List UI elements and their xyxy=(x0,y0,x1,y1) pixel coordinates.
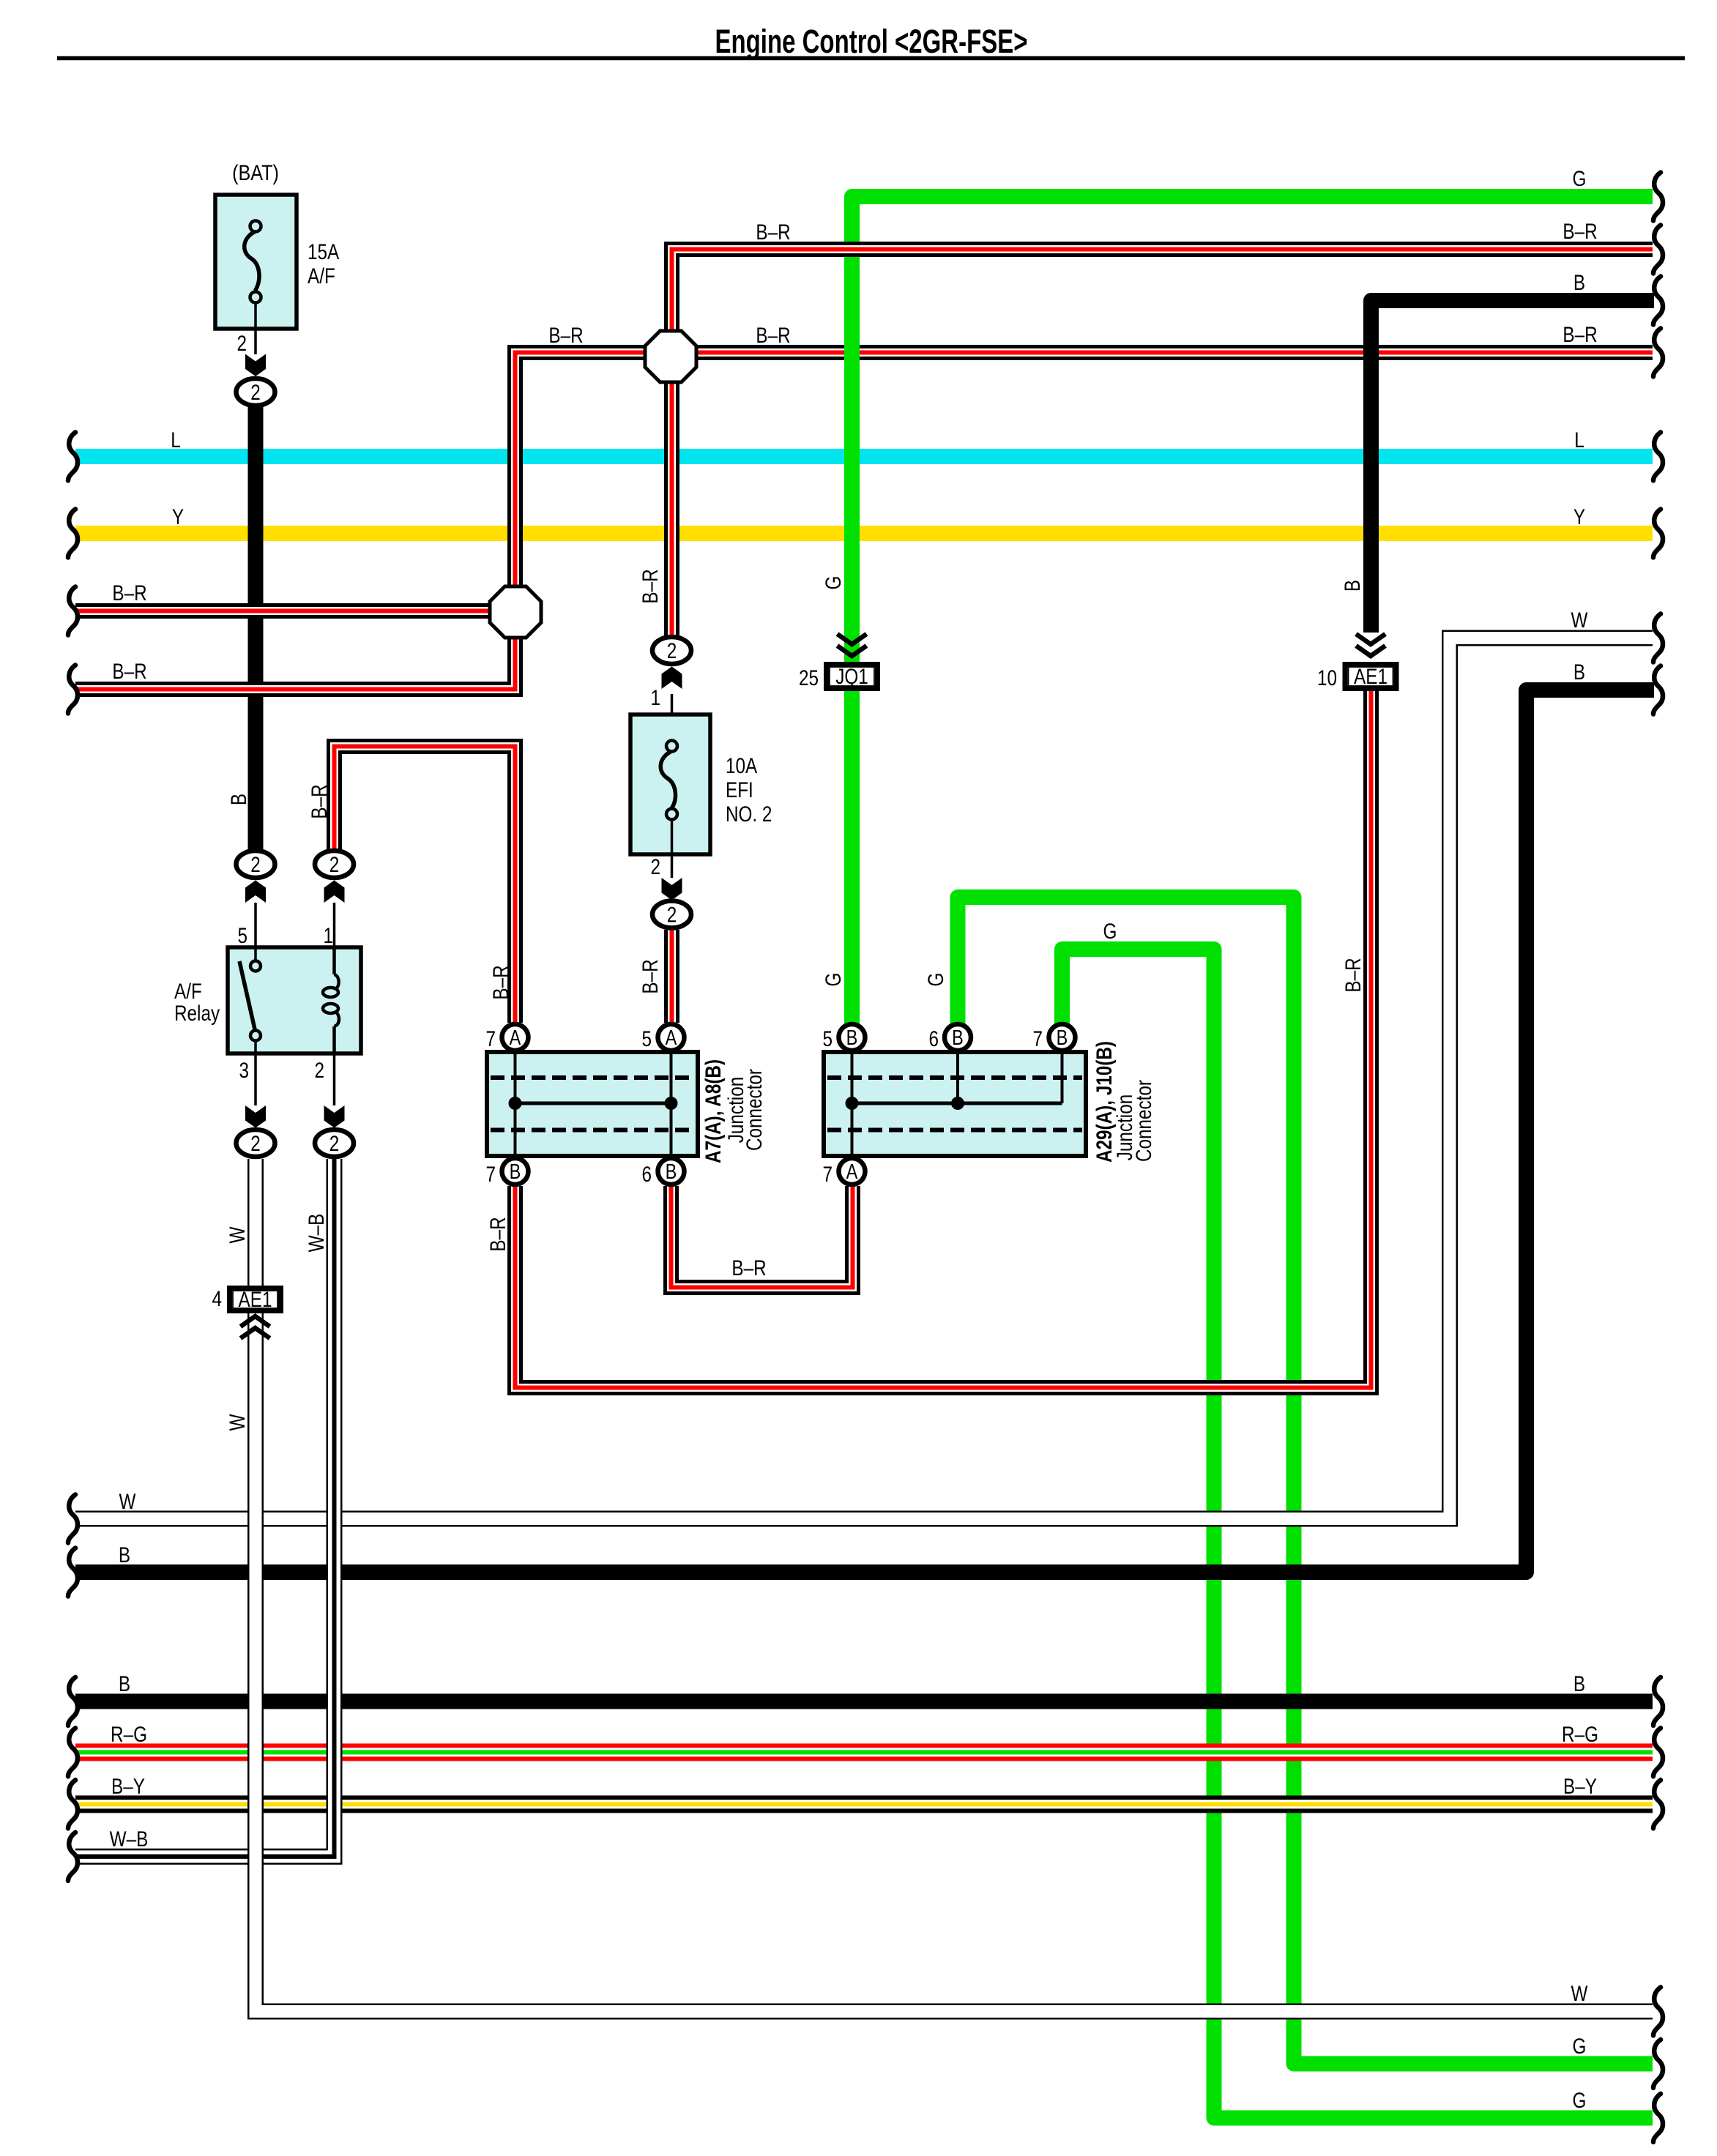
svg-text:1: 1 xyxy=(323,923,333,948)
relay switch contact top xyxy=(254,948,257,961)
break symbols left xyxy=(68,433,78,481)
svg-text:2: 2 xyxy=(650,854,660,879)
svg-text:W: W xyxy=(119,1489,136,1514)
svg-text:B–R: B–R xyxy=(1563,322,1597,347)
svg-text:B–R: B–R xyxy=(731,1256,766,1280)
relay pin 2 lead xyxy=(333,1053,336,1105)
pin 7A junction connector 1 xyxy=(502,1024,529,1051)
svg-text:G: G xyxy=(1573,166,1587,191)
AE1 10 arrow xyxy=(1356,634,1385,644)
svg-text:1: 1 xyxy=(650,685,660,710)
svg-text:B: B xyxy=(1573,1671,1585,1696)
wire B-R octagon A to left corner down to octagon B xyxy=(515,353,647,589)
svg-text:B–R: B–R xyxy=(1341,958,1366,992)
pin 7B junction connector 1 xyxy=(502,1158,529,1185)
svg-text:B–R: B–R xyxy=(485,1217,510,1251)
wire B-R top horizontal into junction octagon A xyxy=(672,250,1653,333)
junction connector A29(A) J10(B) xyxy=(824,1052,1086,1156)
svg-text:Connector: Connector xyxy=(742,1069,767,1151)
pin 5B junction connector 2 xyxy=(839,1024,865,1051)
wire W right: left break to top right break xyxy=(75,638,1653,1519)
pin 7A junction connector 2 xyxy=(839,1158,865,1185)
relay coil xyxy=(332,948,336,974)
JQ1 arrow xyxy=(838,634,867,644)
svg-text:7: 7 xyxy=(485,1026,496,1051)
wire W-B from relay pin 2 down to left break xyxy=(75,1159,335,1857)
fuse 15A A/F xyxy=(215,195,297,329)
svg-text:B–R: B–R xyxy=(1563,219,1597,244)
wire B-R right of junction octagon (under green) xyxy=(696,345,1653,360)
svg-text:B–R: B–R xyxy=(756,220,790,245)
wire G from pin 6B up right and down to bottom G xyxy=(958,898,1653,2064)
svg-text:W: W xyxy=(225,1226,250,1243)
connector oval 2 below 15A fuse xyxy=(236,378,275,406)
svg-text:2: 2 xyxy=(329,852,340,877)
connector oval 2 below EFI fuse xyxy=(652,901,691,928)
svg-text:B: B xyxy=(1340,580,1365,592)
svg-text:B: B xyxy=(510,1160,521,1184)
wire L (cyan) xyxy=(75,449,1653,464)
wire W from relay pin 3 down right to right break xyxy=(256,1159,1653,2012)
svg-text:B: B xyxy=(226,794,251,805)
AE1 4 box xyxy=(230,1288,281,1311)
svg-text:(BAT): (BAT) xyxy=(232,160,279,185)
connector oval 2 below relay pin 3 xyxy=(236,1130,275,1157)
svg-text:G: G xyxy=(1103,919,1117,944)
svg-text:AE1: AE1 xyxy=(239,1287,272,1312)
wire B-Y bottom xyxy=(75,1796,1653,1813)
svg-text:B: B xyxy=(119,1543,130,1567)
svg-text:15A: 15A xyxy=(308,239,340,264)
svg-text:2: 2 xyxy=(329,1131,340,1156)
wire B thick top right to AE1 10 xyxy=(1371,301,1655,633)
svg-text:B–Y: B–Y xyxy=(111,1774,145,1799)
fuse 10A EFI NO.2 xyxy=(630,715,710,854)
wire B bottom full width xyxy=(75,1694,1653,1709)
svg-text:G: G xyxy=(1573,2088,1587,2113)
svg-text:2: 2 xyxy=(314,1058,324,1083)
svg-text:7: 7 xyxy=(1032,1026,1043,1051)
wire B-R left 2 up into octagon B bottom xyxy=(75,636,515,690)
svg-text:B: B xyxy=(1573,270,1585,295)
svg-text:Y: Y xyxy=(1573,504,1585,529)
svg-text:L: L xyxy=(1574,428,1584,452)
relay switch blade xyxy=(239,961,255,1029)
svg-text:R–G: R–G xyxy=(111,1722,147,1747)
svg-text:Y: Y xyxy=(172,504,184,529)
relay A/F box xyxy=(228,947,361,1053)
svg-text:R–G: R–G xyxy=(1562,1722,1598,1747)
svg-text:A7(A), A8(B): A7(A), A8(B) xyxy=(701,1059,726,1163)
svg-text:W–B: W–B xyxy=(110,1827,149,1851)
connector arrow above relay pin 1 xyxy=(324,881,345,903)
svg-text:B–R: B–R xyxy=(548,323,583,348)
connector arrow above EFI fuse xyxy=(662,667,682,690)
svg-text:G: G xyxy=(821,973,846,987)
svg-text:B–R: B–R xyxy=(756,323,790,348)
svg-text:JQ1: JQ1 xyxy=(835,664,868,689)
wire B-R EFI fuse to junction connector pin 5A xyxy=(664,930,679,1023)
wire B-R relay pin1 up over to junction connector pin 7A xyxy=(335,747,515,1023)
svg-text:EFI: EFI xyxy=(726,777,753,802)
svg-text:W–B: W–B xyxy=(304,1214,329,1253)
svg-text:7: 7 xyxy=(485,1162,496,1187)
svg-text:B–R: B–R xyxy=(488,965,513,999)
junction octagon B xyxy=(490,586,541,638)
pin 6B junction connector 1 xyxy=(658,1158,685,1185)
svg-text:Connector: Connector xyxy=(1131,1080,1156,1162)
connector arrow below EFI fuse xyxy=(662,878,682,900)
svg-text:B–R: B–R xyxy=(307,784,332,818)
AE1 4 arrow xyxy=(241,1316,270,1327)
connector oval 2 below relay pin 2 xyxy=(315,1130,354,1157)
AE1 10 box xyxy=(1345,665,1396,689)
wire B thick from 15A fuse down to relay xyxy=(248,407,264,851)
svg-text:4: 4 xyxy=(212,1286,222,1311)
svg-text:B: B xyxy=(1573,660,1585,685)
svg-text:2: 2 xyxy=(236,331,247,356)
svg-text:5: 5 xyxy=(237,923,247,948)
svg-text:2: 2 xyxy=(667,638,677,663)
svg-text:A: A xyxy=(510,1026,521,1050)
svg-text:AE1: AE1 xyxy=(1354,664,1388,689)
svg-text:B–Y: B–Y xyxy=(1563,1774,1597,1799)
wire B-R left 1 into octagon B xyxy=(75,603,491,619)
svg-text:G: G xyxy=(1573,2034,1587,2059)
wire G from pin 7B up right and down to bottom G xyxy=(1062,950,1653,2119)
svg-text:G: G xyxy=(821,576,846,590)
connector arrow below 15A fuse xyxy=(245,354,266,377)
connector oval 2 above relay pin 1 xyxy=(315,851,354,878)
svg-text:B–R: B–R xyxy=(112,581,146,605)
svg-text:L: L xyxy=(171,428,181,452)
svg-text:B–R: B–R xyxy=(638,959,663,993)
svg-text:3: 3 xyxy=(239,1058,249,1083)
svg-text:B–R: B–R xyxy=(112,659,146,684)
wire R-G bottom xyxy=(75,1744,1653,1761)
JQ1 box with label 25 xyxy=(827,665,878,689)
wire Y (yellow) xyxy=(75,526,1653,541)
svg-text:W: W xyxy=(1571,608,1588,633)
pin 5A junction connector 1 xyxy=(658,1024,685,1051)
svg-text:A/F: A/F xyxy=(174,979,202,1004)
break symbols right xyxy=(1653,173,1663,221)
svg-text:W: W xyxy=(225,1414,250,1431)
svg-text:6: 6 xyxy=(928,1026,939,1051)
svg-text:6: 6 xyxy=(641,1162,652,1187)
connector arrow below relay pin 3 xyxy=(245,1105,266,1128)
svg-text:B: B xyxy=(952,1026,964,1050)
svg-text:B: B xyxy=(119,1671,130,1696)
svg-text:25: 25 xyxy=(799,665,819,690)
wire B-R from AE1 10 down left up to junction connector pin 7B xyxy=(515,691,1371,1388)
relay pin 3 lead xyxy=(254,1053,257,1105)
title underline xyxy=(57,56,1685,61)
wire B-R U between pin 6B and pin 7A xyxy=(671,1186,853,1288)
svg-text:W: W xyxy=(1571,1981,1588,2006)
svg-text:B–R: B–R xyxy=(638,569,663,603)
pin 7B junction connector 2 xyxy=(1049,1024,1076,1051)
connector oval 2 above EFI fuse xyxy=(652,637,691,664)
svg-text:Relay: Relay xyxy=(174,1001,220,1026)
svg-text:A/F: A/F xyxy=(308,264,335,288)
wire B-R octagon A bottom down to EFI fuse xyxy=(664,382,679,635)
svg-text:2: 2 xyxy=(250,1131,261,1156)
svg-text:7: 7 xyxy=(822,1162,833,1187)
relay switch contact bottom xyxy=(250,1031,261,1041)
svg-text:NO. 2: NO. 2 xyxy=(726,802,772,827)
svg-text:10A: 10A xyxy=(726,753,758,778)
svg-text:2: 2 xyxy=(250,852,261,877)
svg-text:G: G xyxy=(923,973,948,987)
svg-text:2: 2 xyxy=(667,902,677,927)
svg-text:B: B xyxy=(846,1026,858,1050)
svg-text:5: 5 xyxy=(822,1026,833,1051)
junction octagon A xyxy=(645,331,696,382)
svg-text:10: 10 xyxy=(1317,665,1337,690)
wire B right: left break up to top right break xyxy=(75,690,1654,1573)
pin 6B junction connector 2 xyxy=(945,1024,971,1051)
svg-text:B: B xyxy=(666,1160,677,1184)
wire G main vertical from top to JQ1 and junction connector pin 5B xyxy=(852,197,1653,1037)
connector arrow below relay pin 2 xyxy=(324,1105,345,1128)
junction connector A7(A) A8(B) xyxy=(487,1052,698,1156)
svg-text:A: A xyxy=(666,1026,677,1050)
svg-text:Engine Control <2GR-FSE>: Engine Control <2GR-FSE> xyxy=(715,23,1028,60)
svg-text:2: 2 xyxy=(250,380,261,405)
connector oval 2 above relay pin 5 xyxy=(236,851,275,878)
svg-text:B: B xyxy=(1057,1026,1068,1050)
connector arrow above relay pin 5 xyxy=(245,881,266,903)
svg-text:A: A xyxy=(846,1160,858,1184)
svg-text:5: 5 xyxy=(641,1026,652,1051)
